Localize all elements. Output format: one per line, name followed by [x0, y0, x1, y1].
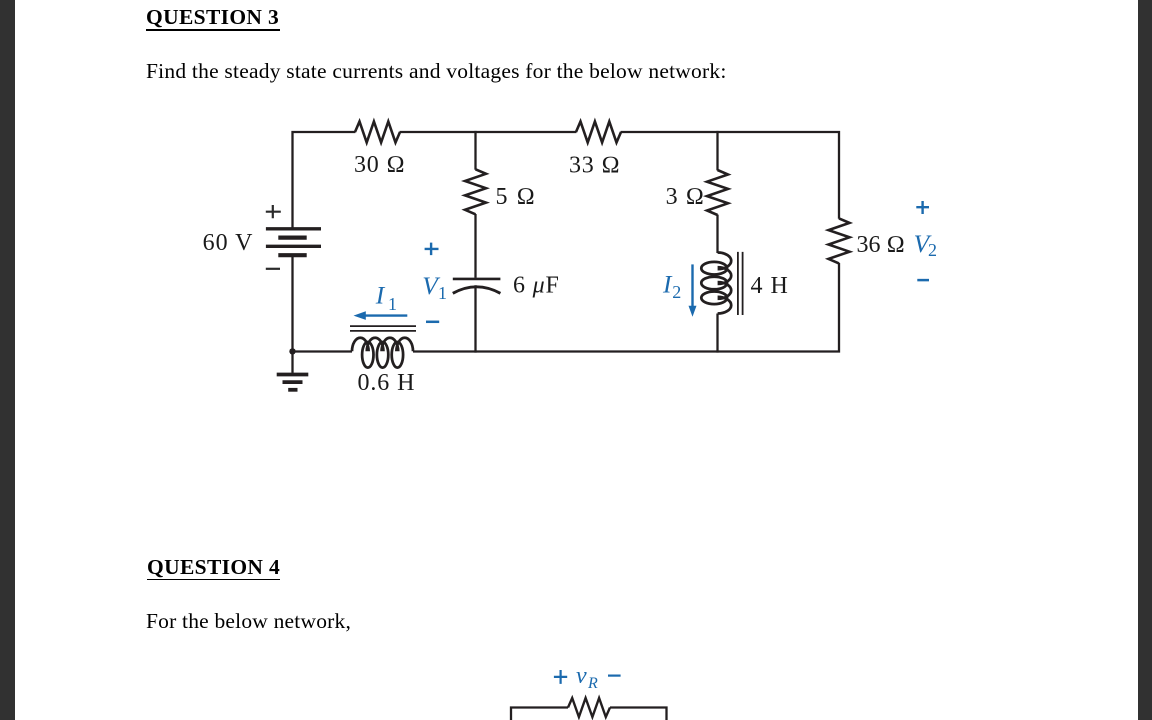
ground bar 1 — [277, 373, 309, 377]
wire bottom-left: battery bottom to ground node to 0.6H coil — [293, 254, 353, 352]
wire branch capacitor top: node to 5-ohm — [474, 131, 476, 170]
label 4 H — [751, 273, 789, 299]
svg-text:1: 1 — [438, 283, 447, 303]
label V2 — [914, 229, 933, 258]
Q4 label vR — [576, 663, 587, 689]
wire top-left corner: left rail upper + top wire to 30-ohm — [293, 132, 356, 229]
label 3 ohm — [666, 184, 705, 210]
svg-text:5 Ω: 5 Ω — [496, 184, 537, 210]
svg-text:4 H: 4 H — [751, 273, 789, 299]
label I2 — [662, 270, 673, 299]
wire top-right corner: 33-ohm to right rail down to 36-ohm — [621, 132, 839, 219]
ground bar 3 — [288, 388, 297, 392]
heading QUESTION 4 — [147, 557, 280, 579]
left dark sidebar — [0, 0, 15, 720]
Q4 wire right — [610, 708, 667, 720]
battery 60V plate long top — [266, 227, 321, 230]
resistor 36 ohm — [829, 218, 850, 263]
inductor 0.6H core lines — [350, 326, 416, 331]
arrow I2 — [691, 264, 693, 306]
svg-text:1: 1 — [388, 294, 397, 314]
label 0.6 H — [358, 370, 416, 396]
svg-text:30 Ω: 30 Ω — [354, 152, 406, 178]
underline of QUESTION 4 — [147, 579, 280, 581]
Q4 plus of vR — [554, 670, 567, 684]
Q4 resistor R — [568, 698, 610, 717]
svg-text:6 μF: 6 μF — [513, 273, 560, 299]
svg-text:0.6 H: 0.6 H — [358, 370, 416, 396]
arrow I1 — [365, 314, 408, 316]
svg-text:33 Ω: 33 Ω — [569, 153, 621, 179]
arrowhead I2 — [689, 306, 697, 317]
wire right rail lower + bottom wire back to coil — [413, 263, 839, 352]
inductor 4H core lines — [738, 252, 743, 315]
wire 3-ohm to 4H coil — [716, 215, 718, 253]
battery 60V plate short bottom — [278, 253, 306, 257]
svg-text:2: 2 — [928, 240, 937, 260]
ground stem — [291, 352, 293, 373]
Q4 minus of vR — [608, 674, 621, 676]
inductor 4H coil loops — [701, 262, 727, 304]
label I1 subscript — [388, 294, 397, 314]
resistor 30 ohm — [355, 122, 400, 143]
svg-text:I: I — [375, 281, 386, 310]
label 60 V — [203, 230, 254, 256]
battery 60V plate long lower — [266, 245, 321, 248]
label 36 ohm — [857, 232, 905, 258]
svg-text:60 V: 60 V — [203, 230, 254, 256]
resistor 33 ohm — [576, 122, 621, 143]
battery plus sign — [266, 205, 281, 218]
heading QUESTION 3 — [146, 7, 279, 29]
battery 60V plate short upper — [278, 236, 306, 240]
svg-text:v: v — [576, 663, 587, 689]
wire top middle: 30-ohm to 33-ohm — [400, 131, 577, 133]
svg-text:3 Ω: 3 Ω — [666, 184, 705, 210]
plus of V2 — [916, 201, 929, 214]
ground bar 2 — [283, 380, 303, 384]
Q4 wire left — [511, 708, 568, 720]
paragraph question 4 — [146, 611, 351, 633]
inductor 4H coil arches — [718, 253, 732, 314]
label I1 — [375, 281, 386, 310]
wire capacitor bottom plate to bottom wire — [474, 285, 476, 352]
Q4 label vR subscript — [587, 675, 598, 692]
svg-text:R: R — [587, 675, 598, 692]
inductor 0.6H coil arches — [352, 338, 413, 352]
capacitor 6uF top plate — [453, 278, 501, 281]
svg-text:36 Ω: 36 Ω — [857, 232, 905, 258]
resistor 3 ohm — [707, 170, 728, 215]
wire 4H coil to bottom wire — [716, 314, 718, 353]
label I2 subscript — [672, 282, 681, 302]
label V1 — [422, 271, 441, 300]
minus of V1 — [426, 321, 439, 324]
inductor 0.6H coil loops — [362, 342, 403, 368]
right dark sidebar — [1138, 0, 1152, 720]
minus of V2 — [917, 279, 929, 282]
label V1 subscript — [438, 283, 447, 303]
arrowhead I1 — [354, 311, 366, 320]
paragraph question 3 — [146, 61, 727, 83]
battery minus sign — [266, 268, 280, 270]
plus of V1 — [425, 243, 439, 256]
junction dot ground node — [289, 348, 295, 354]
label 30 ohm — [354, 152, 406, 178]
wire 5-ohm to capacitor top plate — [474, 214, 476, 278]
resistor 5 ohm — [465, 169, 486, 214]
label V2 subscript — [928, 240, 937, 260]
label 6 uF — [513, 273, 560, 299]
svg-text:2: 2 — [672, 282, 681, 302]
wire branch 3-ohm top: node to 3-ohm — [716, 131, 718, 171]
capacitor 6uF curved bottom plate — [453, 287, 501, 294]
label 33 ohm — [569, 153, 621, 179]
label 5 ohm — [496, 184, 537, 210]
underline of QUESTION 3 — [146, 29, 280, 31]
